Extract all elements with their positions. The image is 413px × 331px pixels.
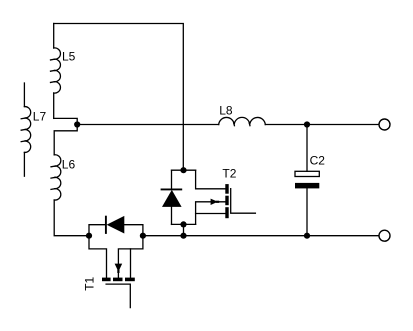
wire diode D2 cathode lead: [171, 170, 173, 189]
diode D2 bar: [161, 188, 183, 190]
wire bottom rail: [143, 235, 380, 237]
wire diode D2 anode lead: [172, 223, 196, 225]
wire top rectangle: [54, 24, 184, 171]
diode D1 bar: [105, 216, 107, 234]
diode D2 triangle: [162, 190, 182, 207]
inductor L8: [219, 117, 266, 124]
wire T1 source jog: [89, 236, 107, 278]
svg-text:L6: L6: [62, 157, 76, 171]
inductor L5: [54, 48, 61, 93]
terminal pad bottom: [379, 230, 390, 241]
diode D1 triangle: [107, 216, 125, 234]
wire L5 top lead: [53, 24, 55, 49]
wire T2 body lead: [196, 202, 226, 225]
wire T1 gate: [106, 284, 130, 308]
capacitor C2 bottom plate: [295, 183, 319, 189]
wire mid rail: [77, 124, 219, 126]
wire C2 top lead: [306, 125, 308, 172]
svg-text:L8: L8: [219, 104, 233, 118]
wire T2 gate: [231, 189, 256, 214]
transistor T2 body arrow: [211, 199, 218, 205]
svg-text:C2: C2: [310, 154, 326, 168]
transistor T1 bars: [102, 278, 111, 282]
wire diode D1 left lead: [89, 225, 106, 236]
wire T2 drain jog: [196, 170, 226, 189]
wire T2 branch to rail: [183, 224, 185, 235]
wire T1 drain jog: [118, 236, 142, 278]
wire T1 drain lead: [130, 249, 132, 278]
wire node A jog: [54, 118, 77, 154]
junction node dots: [74, 121, 80, 127]
wire C2 bottom lead: [306, 188, 308, 235]
terminal pad top: [379, 119, 390, 130]
capacitor C2 top plate: [295, 171, 319, 176]
svg-text:L5: L5: [62, 50, 76, 64]
wire T2 top node: [172, 169, 196, 171]
svg-text:T2: T2: [222, 166, 236, 180]
svg-text:T1: T1: [82, 276, 96, 290]
inductor L6: [54, 155, 61, 200]
inductor L7: [23, 83, 25, 107]
transistor T2 bars: [225, 184, 228, 194]
wire diode D1 right lead: [124, 225, 143, 236]
wire L5 bottom lead: [53, 93, 55, 118]
wire mid rail right: [265, 124, 379, 126]
wire L6 bottom lead: [54, 200, 89, 236]
transistor T1 body arrow: [115, 264, 123, 272]
wire T2 source lead: [196, 213, 226, 215]
svg-text:L7: L7: [33, 110, 47, 124]
